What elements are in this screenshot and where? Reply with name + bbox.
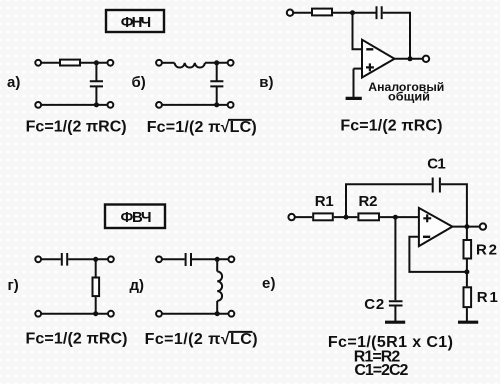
wire — [395, 58, 423, 60]
wire — [466, 260, 468, 287]
svg-text:б): б) — [132, 74, 146, 91]
svg-text:C2: C2 — [364, 296, 384, 313]
box ФНЧ — [106, 10, 164, 32]
wire — [334, 216, 358, 218]
terminal bottom-right (g) — [108, 311, 114, 317]
node (between R1 and R2) — [344, 215, 349, 220]
resistor R (series, circuit a) — [60, 60, 80, 66]
wire — [162, 62, 174, 64]
node (circuit v, output) — [408, 56, 413, 61]
wire — [394, 217, 396, 300]
resistor R1 (shunt, circuit e) — [464, 287, 472, 307]
svg-text:R1: R1 — [315, 193, 334, 210]
capacitor C (series, circuit g) — [62, 253, 67, 266]
sqrt vinculum (circuit b formula) — [228, 119, 252, 121]
resistor R (circuit v) — [312, 9, 332, 16]
svg-text:C1=2C2: C1=2C2 — [354, 362, 408, 379]
circuit g: terminal top-left — [35, 256, 41, 262]
wire — [383, 13, 410, 59]
wire — [162, 258, 184, 260]
wire — [192, 258, 228, 260]
wire — [354, 68, 363, 70]
inductor L (series, circuit b) — [175, 63, 205, 68]
plus input mark — [366, 63, 374, 71]
svg-text:Fc=1/(2 πRC): Fc=1/(2 πRC) — [26, 118, 127, 135]
ground (below R1) — [458, 321, 478, 324]
circuit b: terminal in top-left — [156, 60, 162, 66]
box ФВЧ — [105, 205, 165, 229]
terminal top-right (g) — [108, 256, 114, 262]
wire — [441, 184, 467, 226]
node (output) — [464, 224, 469, 229]
resistor R (shunt, circuit g) — [93, 278, 100, 297]
node (between R2 and R1 shunt) — [464, 269, 469, 274]
terminal bottom-left (a) — [35, 102, 41, 108]
terminal bottom-left (g) — [35, 311, 41, 317]
svg-text:в): в) — [259, 74, 273, 91]
wire — [205, 62, 228, 64]
wire — [68, 258, 108, 260]
wire — [162, 313, 228, 315]
node (circuit g, bottom) — [93, 311, 98, 316]
svg-text:д): д) — [130, 277, 145, 294]
node (R2 to op-amp) — [393, 215, 398, 220]
wire — [81, 62, 107, 64]
wire — [353, 69, 355, 98]
terminal bottom-left (d) — [156, 311, 162, 317]
svg-text:Fc=1/(2 πRC): Fc=1/(2 πRC) — [340, 118, 442, 135]
wire — [95, 87, 97, 105]
svg-text:R2: R2 — [359, 193, 378, 210]
terminal bottom-right (a) — [108, 102, 114, 108]
wire (feedback to minus input) — [409, 237, 467, 272]
terminal output (circuit e) — [480, 223, 486, 229]
terminal bottom-left (b) — [156, 102, 162, 108]
wire — [353, 13, 363, 50]
svg-text:г): г) — [8, 277, 19, 294]
terminal top-right (b) — [228, 60, 234, 66]
wire — [295, 216, 312, 218]
wire — [41, 258, 60, 260]
svg-text:C1: C1 — [427, 155, 445, 172]
wire — [41, 104, 107, 106]
node (circuit a, top) — [94, 60, 99, 65]
op-amp U (circuit v) — [362, 40, 395, 78]
circuit d: terminal top-left — [156, 256, 162, 262]
node (circuit d, top) — [215, 257, 220, 262]
op-amp U (circuit e) — [419, 208, 453, 246]
wire — [346, 184, 432, 217]
wire — [216, 259, 218, 271]
node (circuit b, top) — [214, 60, 219, 65]
resistor R1 (circuit e) — [313, 213, 333, 220]
wire — [333, 12, 376, 14]
wire — [466, 308, 468, 321]
wire — [394, 306, 396, 321]
wire — [95, 259, 97, 276]
node (circuit d, bottom) — [215, 311, 220, 316]
minus input mark — [423, 236, 430, 238]
wire — [216, 87, 218, 105]
circuit a: terminal in top-left — [35, 60, 41, 66]
wire — [294, 12, 312, 14]
node (circuit a, bottom) — [94, 102, 99, 107]
wire — [466, 227, 468, 239]
circuit v: input terminal — [287, 10, 293, 16]
svg-text:е): е) — [262, 275, 276, 292]
terminal top-right (d) — [229, 256, 235, 262]
capacitor C1 (feedback, circuit e) — [433, 178, 440, 193]
node (circuit v, input) — [350, 10, 355, 15]
svg-text:Fc=1/(2 π√LC): Fc=1/(2 π√LC) — [147, 119, 257, 136]
resistor R2 (series, circuit e) — [358, 213, 379, 220]
wire — [380, 216, 419, 218]
wire — [162, 104, 228, 106]
inductor L (shunt, circuit d) — [217, 272, 222, 301]
terminal bottom-right (d) — [229, 311, 235, 317]
svg-text:ФВЧ: ФВЧ — [121, 209, 152, 226]
svg-text:R2: R2 — [476, 242, 497, 259]
terminal bottom-right (b) — [228, 102, 234, 108]
minus input mark — [366, 48, 373, 50]
ground (below C2) — [385, 321, 405, 324]
wire — [95, 297, 97, 314]
wire — [95, 63, 97, 81]
terminal output (circuit v) — [423, 56, 429, 62]
svg-text:общий: общий — [388, 92, 430, 104]
svg-text:ФНЧ: ФНЧ — [121, 14, 152, 31]
capacitor C (shunt, circuit b) — [210, 81, 223, 86]
sqrt vinculum (circuit d formula) — [229, 331, 253, 333]
capacitor C2 (circuit e) — [389, 301, 403, 305]
svg-text:Fc=1/(2 πRC): Fc=1/(2 πRC) — [26, 330, 128, 347]
capacitor C (series, circuit d) — [186, 253, 191, 266]
resistor R2 (shunt, circuit e) — [464, 240, 472, 259]
plus input mark — [423, 214, 431, 222]
wire — [216, 301, 218, 314]
svg-text:R1: R1 — [477, 289, 498, 306]
node (circuit b, bottom) — [214, 102, 219, 107]
svg-text:а): а) — [7, 74, 20, 91]
circuit e: input terminal — [288, 214, 294, 220]
wire — [41, 313, 107, 315]
ground (analog common, circuit v) — [346, 97, 362, 100]
wire — [41, 62, 59, 64]
node (circuit g, top) — [93, 257, 98, 262]
wire — [216, 63, 218, 81]
capacitor C (shunt, circuit a) — [90, 81, 103, 86]
capacitor C (feedback, circuit v) — [377, 6, 382, 19]
terminal out top-right (a) — [108, 60, 114, 66]
wire — [452, 226, 479, 228]
svg-text:Fc=1/(2 π√LC): Fc=1/(2 π√LC) — [145, 331, 258, 348]
